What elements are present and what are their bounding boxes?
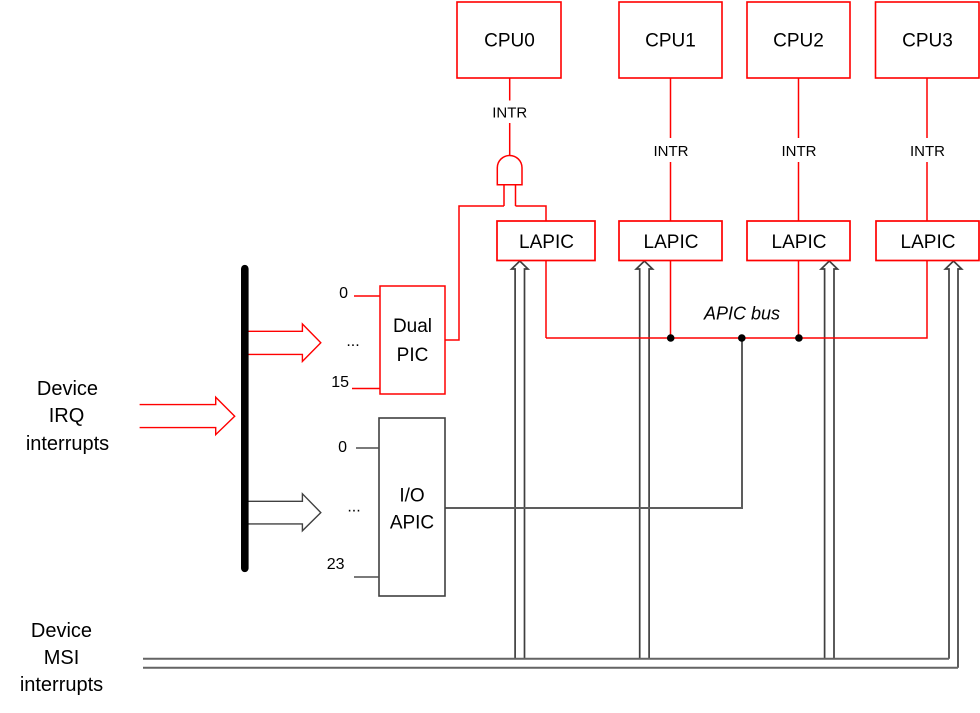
CPU1 box	[619, 2, 722, 78]
gray open arrow to I/O APIC	[248, 494, 321, 531]
LAPIC3 box	[747, 221, 850, 261]
svg-text:...: ...	[346, 333, 359, 350]
I/O APIC pin 23 tick	[354, 576, 379, 578]
device MSI pipe top line	[143, 658, 949, 660]
svg-text:15: 15	[331, 374, 349, 391]
device IRQ bus bar (thick black vertical)	[241, 269, 249, 569]
svg-text:CPU2: CPU2	[773, 31, 824, 52]
svg-text:LAPIC: LAPIC	[519, 232, 574, 253]
wire LAPIC1 top to AND gate right input	[516, 206, 547, 221]
red open arrow to Dual PIC	[248, 324, 321, 361]
device MSI open arrow under LAPIC3	[821, 261, 837, 659]
wire I/O APIC output to APIC bus	[445, 338, 742, 508]
I/O APIC pin 0 tick	[356, 447, 379, 449]
svg-text:APIC bus: APIC bus	[703, 304, 780, 324]
device MSI open arrow under LAPIC2	[636, 261, 652, 659]
wire LAPIC1 to APIC bus	[545, 261, 547, 339]
CPU3 box	[876, 2, 980, 78]
svg-text:0: 0	[339, 285, 348, 302]
svg-text:23: 23	[327, 556, 345, 573]
svg-text:APIC: APIC	[390, 513, 434, 534]
svg-text:IRQ: IRQ	[49, 405, 85, 427]
I/O APIC box	[379, 418, 445, 596]
Dual PIC box	[380, 286, 445, 394]
junction dot LAPIC2 / APIC bus	[667, 334, 675, 342]
svg-text:INTR: INTR	[782, 143, 817, 160]
Dual PIC pin 0 tick	[354, 295, 380, 297]
wire CPU0 INTR lower segment	[509, 123, 511, 156]
wire LAPIC2 to APIC bus	[670, 261, 672, 339]
LAPIC1 box	[497, 221, 595, 261]
junction dot I/O APIC / APIC bus	[738, 334, 746, 342]
junction dot LAPIC3 / APIC bus	[795, 334, 803, 342]
device MSI open arrow under LAPIC1	[512, 261, 528, 659]
svg-text:Dual: Dual	[393, 316, 432, 337]
svg-text:MSI: MSI	[44, 647, 80, 669]
svg-text:INTR: INTR	[492, 105, 527, 122]
wire CPU2 INTR upper segment	[798, 78, 800, 138]
svg-text:...: ...	[347, 499, 360, 516]
svg-text:Device: Device	[37, 378, 98, 400]
wire CPU1 INTR upper segment	[670, 78, 672, 138]
svg-text:LAPIC: LAPIC	[644, 232, 699, 253]
wire CPU1 INTR lower segment	[670, 162, 672, 221]
APIC bus wire with riser to LAPIC4	[546, 261, 927, 339]
wire Dual PIC output to AND gate left input	[445, 206, 504, 340]
svg-text:CPU0: CPU0	[484, 31, 535, 52]
svg-text:0: 0	[338, 439, 347, 456]
wire CPU2 INTR lower segment	[798, 162, 800, 221]
red open arrow from Device IRQ label to bus bar	[140, 397, 235, 434]
svg-text:I/O: I/O	[399, 486, 424, 507]
Dual PIC pin 15 tick	[352, 388, 380, 390]
CPU0 box	[457, 2, 561, 78]
device MSI pipe bottom line	[143, 667, 958, 669]
AND gate right input stub	[515, 185, 517, 206]
AND gate at CPU0 INTR input	[497, 155, 522, 184]
AND gate left input stub	[503, 185, 505, 206]
wire CPU0 INTR upper segment	[509, 78, 511, 101]
svg-text:INTR: INTR	[910, 143, 945, 160]
wire CPU3 INTR upper segment	[926, 78, 928, 138]
LAPIC2 box	[619, 221, 722, 261]
wire LAPIC3 to APIC bus	[798, 261, 800, 339]
CPU2 box	[747, 2, 850, 78]
svg-text:CPU1: CPU1	[645, 31, 696, 52]
LAPIC4 box	[876, 221, 979, 261]
svg-text:INTR: INTR	[654, 143, 689, 160]
svg-text:interrupts: interrupts	[20, 674, 103, 696]
svg-text:CPU3: CPU3	[902, 31, 953, 52]
svg-text:interrupts: interrupts	[26, 433, 109, 455]
svg-text:LAPIC: LAPIC	[901, 232, 956, 253]
svg-text:LAPIC: LAPIC	[772, 232, 827, 253]
wire CPU3 INTR lower segment	[926, 162, 928, 221]
svg-text:PIC: PIC	[397, 345, 429, 366]
svg-text:Device: Device	[31, 620, 92, 642]
device MSI open arrow under LAPIC4 (joined to MSI pipe elbow)	[945, 261, 961, 668]
